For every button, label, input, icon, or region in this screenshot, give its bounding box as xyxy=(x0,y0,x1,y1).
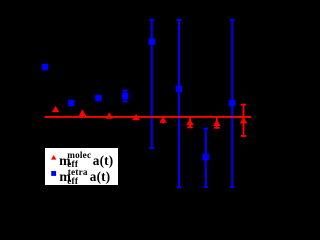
legend row 1 text xyxy=(59,154,71,168)
blue square t=4 xyxy=(122,93,129,100)
blue square t=5 xyxy=(149,38,156,45)
red error bar t=6 xyxy=(187,116,192,127)
blue square t=1 xyxy=(42,64,49,71)
blue square t=7 xyxy=(203,154,210,161)
red error bar t=7 xyxy=(214,117,219,128)
red triangle t=5 xyxy=(159,116,167,123)
legend row 2 text xyxy=(59,170,71,184)
blue error bar t=8 xyxy=(230,20,235,187)
red triangle t=1 xyxy=(52,106,60,113)
blue error bar t=5 xyxy=(149,20,154,148)
legend marker red triangle xyxy=(51,155,56,160)
red triangle t=8 xyxy=(240,117,248,124)
red error bar t=8 xyxy=(241,105,246,136)
legend marker blue square xyxy=(51,171,56,176)
blue square t=8 xyxy=(229,100,236,107)
red triangle t=4 xyxy=(132,114,140,121)
red triangle t=3 xyxy=(106,112,114,119)
red error bar t=5 xyxy=(162,117,164,123)
red triangle t=6 xyxy=(186,119,194,126)
red fit line xyxy=(45,116,252,118)
legend box xyxy=(44,147,119,185)
blue error bar t=4 xyxy=(123,90,128,101)
red triangle t=2 xyxy=(79,109,87,116)
blue error bar t=6 xyxy=(177,20,182,187)
blue square t=3 xyxy=(95,95,102,102)
blue square t=6 xyxy=(176,86,183,93)
blue error bar t=7 xyxy=(203,129,208,187)
blue square t=2 xyxy=(68,100,75,107)
red triangle t=7 xyxy=(213,119,221,126)
